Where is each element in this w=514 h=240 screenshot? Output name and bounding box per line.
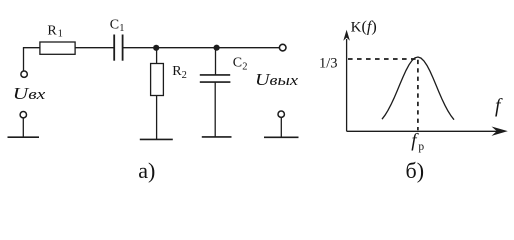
capacitor C1 <box>114 35 122 61</box>
x-axis f <box>347 130 498 132</box>
node junction at C2 <box>214 45 220 51</box>
wire C2 to ground bar <box>214 82 216 137</box>
ground bar input <box>8 136 40 138</box>
wire input terminal up to main rail <box>23 48 25 71</box>
wire input bottom terminal to ground bar <box>22 118 24 137</box>
label R2 <box>172 64 187 81</box>
wire R2 to ground bar <box>156 96 158 140</box>
x-axis arrowhead <box>492 127 508 136</box>
svg-text:K(f): K(f) <box>351 18 377 36</box>
terminal: output top <box>279 44 286 51</box>
dashed level line 1/3 <box>348 58 416 60</box>
svg-text:р: р <box>418 141 424 153</box>
wire R1 to C1 <box>75 47 113 49</box>
wire main rail to R1 <box>23 47 41 49</box>
svg-text:2: 2 <box>182 70 187 81</box>
ground bar under C2 <box>202 136 232 138</box>
label C2 <box>233 55 248 72</box>
ground bar output <box>264 136 299 138</box>
label C1 <box>110 18 125 34</box>
svg-text:б): б) <box>406 158 425 183</box>
label fp resonance frequency <box>411 131 424 154</box>
terminal: output bottom <box>278 111 284 117</box>
svg-text:Uвых: Uвых <box>255 70 298 89</box>
wire rail down to C2 <box>215 48 217 75</box>
ground bar under R2 <box>140 138 173 140</box>
svg-text:1: 1 <box>58 28 63 39</box>
dashed resonance line fp <box>417 60 419 130</box>
wire output bottom terminal to ground bar <box>280 117 282 137</box>
response curve <box>382 57 454 120</box>
node junction at R2 <box>153 45 159 51</box>
svg-text:Uвх: Uвх <box>13 84 46 103</box>
svg-text:C: C <box>110 18 119 33</box>
terminal: input top <box>21 71 27 77</box>
svg-text:f: f <box>495 96 503 117</box>
svg-text:C: C <box>233 55 242 70</box>
svg-text:2: 2 <box>242 62 247 73</box>
svg-text:1/3: 1/3 <box>319 56 338 72</box>
wire C1 to output terminal <box>124 47 280 49</box>
capacitor C2 <box>200 75 231 82</box>
wire rail down to R2 <box>156 48 158 64</box>
resistor R2 <box>151 64 164 96</box>
y-axis K(f) <box>346 39 348 131</box>
svg-text:а): а) <box>138 158 155 183</box>
svg-text:1: 1 <box>119 23 124 34</box>
label R1 <box>47 23 62 39</box>
svg-text:R: R <box>47 23 57 38</box>
y-axis arrowhead <box>343 30 350 41</box>
terminal: input bottom <box>20 112 26 118</box>
resistor R1 <box>40 42 75 54</box>
